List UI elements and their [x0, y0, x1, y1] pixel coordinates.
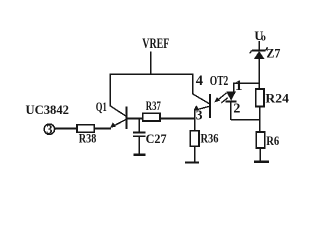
- ground below R6: [254, 161, 269, 164]
- wire zener to R24: [258, 59, 260, 90]
- wire R38 to Q1 emitter: [94, 128, 111, 130]
- zener diode Z7: [250, 47, 268, 59]
- svg-text:o: o: [261, 32, 266, 43]
- resistor R36: [190, 131, 199, 147]
- svg-text:R36: R36: [201, 131, 219, 146]
- svg-text:R38: R38: [79, 130, 97, 145]
- svg-text:R6: R6: [266, 133, 279, 148]
- capacitor C27: [138, 119, 140, 133]
- wire right branch from rail to OT2 collector: [192, 74, 194, 95]
- wire pin3 to R38: [55, 128, 78, 130]
- svg-text:C27: C27: [146, 131, 167, 146]
- svg-text:VREF: VREF: [142, 36, 169, 52]
- light arrows: [214, 93, 228, 103]
- ground below C27: [133, 154, 145, 156]
- pin 2 lead: [230, 102, 232, 120]
- wire R36 to ground: [194, 146, 196, 162]
- resistor R38: [77, 125, 94, 133]
- svg-text:4: 4: [196, 73, 203, 89]
- wire R6 to ground: [259, 148, 261, 161]
- svg-text:2: 2: [233, 101, 240, 116]
- LED of OT2: [226, 92, 236, 101]
- wire Uo to zener: [258, 41, 260, 50]
- wire zener junction to LED pin1: [234, 82, 261, 84]
- transistor Q1: [110, 106, 126, 129]
- wire top horizontal VREF rail: [110, 73, 194, 75]
- ground below R36: [185, 161, 199, 163]
- svg-text:UC3842: UC3842: [26, 102, 70, 117]
- pin 1 lead: [233, 82, 235, 92]
- pin 3 circle of UC3842: [44, 124, 54, 134]
- svg-text:R24: R24: [265, 91, 289, 106]
- wire node3 vertical (emitter of OT2 down to R36): [194, 110, 196, 132]
- phototransistor of OT2: [193, 94, 210, 118]
- svg-text:Z7: Z7: [266, 46, 280, 61]
- wire R24 to junction: [259, 106, 261, 132]
- wire LED pin2 return to R24/R6 junction: [231, 119, 260, 121]
- wire Q1 base to R37: [127, 117, 143, 119]
- svg-text:Q1: Q1: [96, 99, 107, 114]
- resistor R37: [143, 113, 160, 121]
- resistor R6: [256, 132, 265, 148]
- wire R37 to node 3: [160, 117, 196, 119]
- resistor R24: [256, 89, 264, 106]
- svg-text:3: 3: [46, 123, 52, 137]
- svg-text:1: 1: [235, 78, 243, 94]
- wire VREF stub: [150, 52, 152, 75]
- wire Q1 collector branch (left vertical): [109, 74, 111, 107]
- svg-text:R37: R37: [146, 98, 161, 113]
- svg-text:OT2: OT2: [210, 73, 229, 88]
